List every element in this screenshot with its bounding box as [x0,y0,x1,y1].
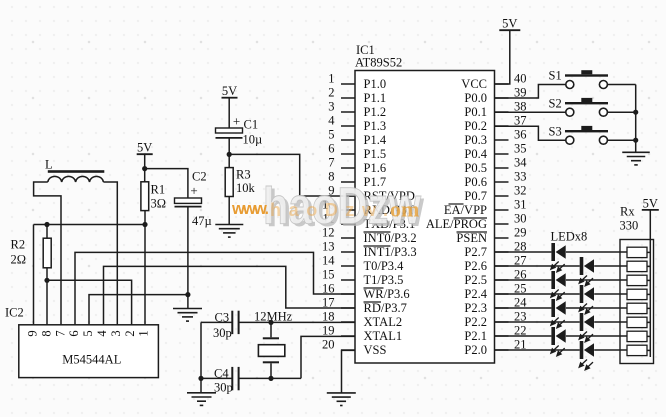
svg-text:T1/P3.5: T1/P3.5 [364,273,404,287]
svg-text:S1: S1 [549,69,562,83]
svg-text:30p: 30p [213,326,232,340]
IC1 pin 8 tick [341,181,355,183]
svg-text:8: 8 [39,330,53,336]
svg-text:20: 20 [322,338,335,352]
wire node B to C2 top [145,169,188,198]
svg-text:P1.5: P1.5 [364,147,387,161]
svg-text:5V: 5V [643,196,658,210]
IC1 pin 37 tick [495,125,509,127]
wire S3 to pin 37 [495,126,566,140]
wire S2 to pin 38 [495,111,566,113]
svg-text:L: L [45,158,53,172]
svg-text:7: 7 [328,156,334,170]
wire R2 bottom lead [46,268,48,281]
IC1 pin 7 tick [341,167,355,169]
svg-text:7: 7 [53,330,67,336]
svg-text:S2: S2 [549,96,562,110]
IC1 pin 21 tick [495,349,509,351]
IC1 pin 22 tick [495,335,509,337]
resistor Rx element 3 [627,275,647,285]
IC1 pin 11 tick [341,223,355,225]
svg-text:14: 14 [322,254,335,268]
IC1 pin 23 tick [495,321,509,323]
switch S2 actuator bar [565,102,608,104]
svg-text:2: 2 [123,330,137,336]
resistor R1 body [141,182,149,211]
IC1 pin 17 tick [341,307,355,309]
IC1 pin 4 tick [341,125,355,127]
node A junction (C1/R3/RST) [227,152,232,157]
switch S1 button knob [581,70,592,74]
node I junction (C3/C4 ground) [198,376,203,381]
wire Rx element 3 to bus [647,279,650,281]
svg-text:18: 18 [322,310,335,324]
IC1 pin 9 tick [341,195,355,197]
svg-text:30p: 30p [214,381,233,395]
svg-text:10k: 10k [236,181,256,195]
wire IC2 pin 5 to node C [89,295,188,325]
switch S1 left contact [566,81,574,89]
wire crystal top stem [270,322,272,337]
svg-text:RD/P3.7: RD/P3.7 [364,301,407,315]
IC1 pin 10 tick [341,209,355,211]
svg-text:36: 36 [514,128,527,142]
wire IC2 pin 8 riser [46,280,48,325]
wire Rx element 4 to bus [647,293,650,295]
resistor Rx element 6 [627,317,647,327]
wire IC2 pin 9 riser [33,225,35,325]
svg-text:R2: R2 [11,238,26,252]
crystal Y1 body [258,345,284,357]
wire switch ground bus [635,85,637,153]
svg-text:WR/P3.6: WR/P3.6 [364,287,410,301]
wire C2 bottom to ground node [187,207,189,295]
node E junction (R2 bottom / IC2 pin8) [44,278,49,283]
IC1 pin 13 tick [341,251,355,253]
IC1 pin 6 tick [341,153,355,155]
ground (switches) [622,151,650,153]
svg-text:32: 32 [514,184,527,198]
inductor L core bar [48,170,105,173]
svg-text:5V: 5V [502,17,517,31]
wire R2 node to IC2 pin 2 [47,280,132,325]
wire LED D2 to resistor network [594,265,627,267]
capacitor C4 right plate [238,367,240,390]
svg-text:5V: 5V [137,141,152,155]
capacitor C1 bottom plate [216,137,243,139]
wire C4 row to riser [240,377,302,379]
svg-text:P2.0: P2.0 [464,343,487,357]
svg-text:P0.4: P0.4 [464,147,487,161]
IC1 pin 40 tick [495,83,509,85]
IC1 pin 27 tick [495,265,509,267]
ground (crystal) [187,392,216,394]
svg-text:VCC: VCC [461,77,487,91]
svg-text:13: 13 [322,240,335,254]
wire pin 22 to LED D7 [495,335,552,337]
svg-text:29: 29 [514,226,527,240]
svg-text:LEDx8: LEDx8 [551,230,588,244]
svg-text:6: 6 [328,142,334,156]
wire XTAL1 riser (pin 19) [301,336,355,378]
switch S3 actuator bar [565,130,608,132]
svg-text:38: 38 [514,100,527,114]
wire C3 left segment [201,321,232,323]
svg-text:T0/P3.4: T0/P3.4 [364,259,405,273]
IC1 pin 25 tick [495,293,509,295]
wire IC2 pin 4 to IC1 pin 17 (RD) [104,266,356,324]
svg-text:3: 3 [328,100,334,114]
svg-text:VSS: VSS [364,343,387,357]
LED D6 [580,313,584,331]
svg-text:P1.6: P1.6 [364,161,387,175]
wire R3 bottom to ground [228,197,230,225]
svg-text:XTAL1: XTAL1 [364,329,403,343]
svg-text:5V: 5V [222,84,237,98]
svg-text:INT1/P3.3: INT1/P3.3 [364,245,417,259]
LED D4 [580,285,584,303]
wire LED D1 to resistor network [566,251,627,253]
IC1 pin 36 tick [495,139,509,141]
svg-text:30: 30 [514,212,527,226]
svg-text:33: 33 [514,170,527,184]
inductor L winding [48,176,104,182]
svg-text:R3: R3 [236,168,251,182]
svg-text:C2: C2 [192,170,207,184]
capacitor C1 top plate [216,128,243,133]
svg-text:P2.2: P2.2 [464,315,487,329]
svg-text:34: 34 [514,156,527,170]
wire 5V to Rx network [649,210,651,240]
IC1 pin 2 tick [341,97,355,99]
node B junction (5V/R1/C2) [142,166,147,171]
svg-text:EA/VPP: EA/VPP [444,203,487,217]
node G junction (crystal top) [268,320,273,325]
IC1 pin 35 tick [495,153,509,155]
resistor Rx element 2 [627,261,647,271]
svg-text:C1: C1 [244,118,259,132]
wire S1 right to bus [607,84,635,86]
ground (below C2) [173,308,202,310]
svg-text:2Ω: 2Ω [11,253,27,267]
svg-text:2: 2 [328,86,334,100]
svg-text:P0.5: P0.5 [464,161,487,175]
wire C1 bottom to node A [228,138,230,155]
svg-text:IC2: IC2 [5,306,24,320]
svg-text:PSEN: PSEN [456,231,487,245]
svg-text:P0.6: P0.6 [464,175,487,189]
wire L left lead step [34,182,61,325]
wire IC2 pin 6 to IC1 pin 16 (WR) [75,252,355,324]
node H junction (crystal bottom) [268,376,273,381]
resistor R3 body [225,168,233,197]
switch S3 left contact [566,136,574,144]
capacitor C3 right plate [238,311,240,334]
wire Rx element 2 to bus [647,265,650,267]
svg-text:P2.5: P2.5 [464,273,487,287]
svg-text:XTAL2: XTAL2 [364,315,403,329]
resistor Rx element 5 [627,303,647,313]
svg-text:31: 31 [514,198,527,212]
wire 5V to node B [144,154,146,168]
wire main node row (L/R2/R1 bus) [34,224,146,226]
IC1 pin 16 tick [341,293,355,295]
wire pin 24 to LED D5 [495,307,552,309]
IC1 pin 39 tick [495,97,509,99]
node K junction (bus S3) [633,138,638,143]
IC1 pin 14 tick [341,265,355,267]
capacitor C2 top plate [175,198,202,203]
wire Rx element 5 to bus [647,307,650,309]
capacitor C4 left plate [231,367,233,390]
svg-text:P2.3: P2.3 [464,301,487,315]
wire crystal bottom stem [270,363,272,378]
svg-text:37: 37 [514,114,527,128]
svg-text:C3: C3 [215,311,230,325]
switch S1 right contact [599,81,607,89]
resistor network common bus [649,240,651,358]
wire C4 left segment [201,377,232,379]
wire pin 28 to LED D1 [495,251,552,253]
IC1 pin 32 tick [495,195,509,197]
ground (VSS) [327,392,356,394]
svg-text:15: 15 [322,268,335,282]
wire IC2 pin 1 riser [144,225,146,325]
IC1 pin 15 tick [341,279,355,281]
node C junction (C2/ground/IC2 pin5 wire) [185,292,190,297]
wire LED D6 to resistor network [594,321,627,323]
node J junction (bus S2) [633,110,638,115]
svg-text:330: 330 [620,219,639,233]
wire node A to RST pin 9 [229,154,355,196]
LED D7 [551,327,555,345]
wire pin 26 to LED D3 [495,279,552,281]
switch S2 button knob [581,98,592,102]
node F junction (R1 bottom / IC2 pin1) [142,222,147,227]
svg-text:om: om [390,197,419,222]
IC1 pin 28 tick [495,251,509,253]
wire Rx element 1 to bus [647,251,650,253]
wire LED D8 to resistor network [594,349,627,351]
IC1 pin 29 tick [495,237,509,239]
IC1 pin 19 tick [341,335,355,337]
wire VCC pin40 to 5V [495,30,510,84]
svg-text:P1.2: P1.2 [364,105,387,119]
IC1 pin 24 tick [495,307,509,309]
IC1 pin 18 tick [341,321,355,323]
svg-text:P2.4: P2.4 [464,287,487,301]
LED D1 [551,243,555,261]
svg-text:P1.1: P1.1 [364,91,387,105]
wire R2 top lead [46,225,48,239]
wire LED D7 to resistor network [566,335,627,337]
wire Rx element 6 to bus [647,321,650,323]
svg-text:ALE/PROG: ALE/PROG [426,217,487,231]
IC1 pin 5 tick [341,139,355,141]
wire R1 bottom lead [144,211,146,225]
LED D5 [551,299,555,317]
resistor Rx element 7 [627,331,647,341]
ground (below R3) [215,224,243,226]
svg-text:P0.1: P0.1 [464,105,487,119]
crystal Y1 top bar [263,337,279,339]
LED D2 [580,257,584,275]
wire pin 27 to LED D2 [495,265,580,267]
capacitor C2 bottom plate [175,206,202,208]
wire LED D5 to resistor network [566,307,627,309]
IC1 pin 3 tick [341,111,355,113]
IC1 pin 38 tick [495,111,509,113]
svg-text:P2.1: P2.1 [464,329,487,343]
IC1 pin 12 tick [341,237,355,239]
svg-text:M54544AL: M54544AL [62,353,121,367]
svg-text:40: 40 [514,72,527,86]
wire S1 to pin 39 [495,85,566,99]
wire node C stem to ground [187,295,189,309]
LED D8 [580,341,584,359]
resistor network Rx outer box [620,240,654,364]
svg-text:35: 35 [514,142,527,156]
wire VSS pin 20 to ground [342,350,356,393]
switch S3 button knob [581,126,592,130]
wire L right lead to IC2 pin 3 [103,182,117,325]
capacitor C3 left plate [231,311,233,334]
resistor Rx element 1 [627,247,647,257]
svg-text:P0.2: P0.2 [464,119,487,133]
switch S3 right contact [599,136,607,144]
svg-text:Rx: Rx [620,205,635,219]
svg-text:AT89S52: AT89S52 [355,56,402,70]
svg-text:6: 6 [67,330,81,336]
wire pin 23 to LED D6 [495,321,580,323]
svg-text:www.: www. [231,200,269,218]
svg-text:S3: S3 [549,124,562,138]
resistor Rx element 8 [627,345,647,355]
IC1 pin 31 tick [495,209,509,211]
svg-text:3: 3 [109,330,123,336]
svg-text:P1.0: P1.0 [364,77,387,91]
wire Rx element 8 to bus [647,349,650,351]
wire C3/C4 ground riser [200,322,202,392]
resistor Rx element 4 [627,289,647,299]
svg-text:P2.6: P2.6 [464,259,487,273]
svg-text:+: + [233,114,240,129]
wire XTAL2 row (pin 18) [240,321,356,323]
node D junction (R2 top) [44,222,49,227]
IC1 pin 26 tick [495,279,509,281]
wire Rx element 7 to bus [647,335,650,337]
svg-text:9: 9 [25,330,39,336]
svg-text:P1.4: P1.4 [364,133,387,147]
svg-text:1: 1 [328,72,334,86]
switch S2 left contact [566,108,574,116]
wire S2 right to bus [607,111,635,113]
wire pin 21 to LED D8 [495,349,580,351]
IC1 pin 34 tick [495,167,509,169]
svg-text:P0.0: P0.0 [464,91,487,105]
wire 5V to C1 top [228,98,230,128]
svg-text:haoDzw.: haoDzw. [270,200,388,220]
IC1 pin 33 tick [495,181,509,183]
svg-text:19: 19 [322,324,335,338]
svg-text:P2.7: P2.7 [464,245,487,259]
svg-text:3Ω: 3Ω [151,197,167,211]
svg-text:P0.7: P0.7 [464,189,487,203]
svg-text:R1: R1 [151,183,166,197]
microcontroller IC1 AT89S52 body [355,71,495,364]
svg-text:4: 4 [95,330,109,337]
LED D3 [551,271,555,289]
crystal Y1 bottom bar [263,361,279,363]
wire S3 right to bus [607,139,635,141]
svg-text:5: 5 [328,128,334,142]
switch S2 right contact [599,108,607,116]
svg-text:P0.3: P0.3 [464,133,487,147]
svg-text:1: 1 [137,330,151,336]
svg-text:47µ: 47µ [192,214,212,228]
resistor R2 body [43,238,51,268]
svg-text:4: 4 [328,114,335,128]
switch S1 actuator bar [565,74,608,76]
IC1 pin 30 tick [495,223,509,225]
svg-text:5: 5 [81,330,95,336]
wire LED D4 to resistor network [594,293,627,295]
svg-text:P1.3: P1.3 [364,119,387,133]
svg-text:C4: C4 [214,367,229,381]
transistor-array IC2 M54544AL body [19,325,159,378]
IC1 pin 20 tick [341,349,355,351]
wire node A to R3 top [228,154,230,167]
svg-text:10µ: 10µ [243,133,263,147]
wire pin 25 to LED D4 [495,293,580,295]
IC1 pin 1 tick [341,83,355,85]
wire R1 top lead [144,169,146,182]
svg-text:+: + [190,183,197,198]
wire LED D3 to resistor network [566,279,627,281]
